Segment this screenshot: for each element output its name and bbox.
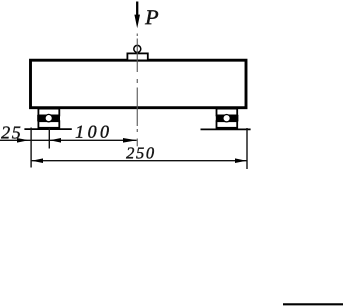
svg-text:25: 25 xyxy=(1,122,22,142)
svg-text:P: P xyxy=(144,5,159,29)
right support ground line xyxy=(201,128,251,130)
dim arrow 25/100 middle xyxy=(50,138,61,143)
dim arrow 100 right xyxy=(123,138,137,143)
dim arrow 25 left xyxy=(17,138,29,143)
left support roller band xyxy=(37,115,60,122)
dimension line 25/100 xyxy=(0,139,137,141)
loading block xyxy=(127,53,147,60)
left support ground line xyxy=(24,128,71,130)
extension line C (beam right edge) xyxy=(246,128,248,169)
dim arrow 250 left xyxy=(32,158,43,163)
loading roller circle xyxy=(134,45,141,52)
right support roller circle xyxy=(223,115,230,122)
left support top plate xyxy=(38,109,59,116)
right support bottom plate xyxy=(217,121,238,128)
right support top plate xyxy=(217,109,238,116)
force arrow P shaft xyxy=(136,2,138,17)
dimension line 250 xyxy=(31,160,247,162)
centerline (dash-dot axis) xyxy=(136,34,138,147)
svg-text:100: 100 xyxy=(75,122,112,142)
beam xyxy=(31,60,247,107)
extension line A (beam left edge) xyxy=(30,128,32,168)
left support roller circle xyxy=(45,114,52,121)
left support bottom plate xyxy=(38,121,59,128)
border line fragment bottom right xyxy=(283,303,343,305)
extension line B (left support center) xyxy=(48,128,50,149)
dim arrow 250 right xyxy=(235,158,246,163)
right support roller band xyxy=(216,115,239,122)
force arrow P head xyxy=(134,15,140,29)
svg-text:250: 250 xyxy=(126,143,156,162)
